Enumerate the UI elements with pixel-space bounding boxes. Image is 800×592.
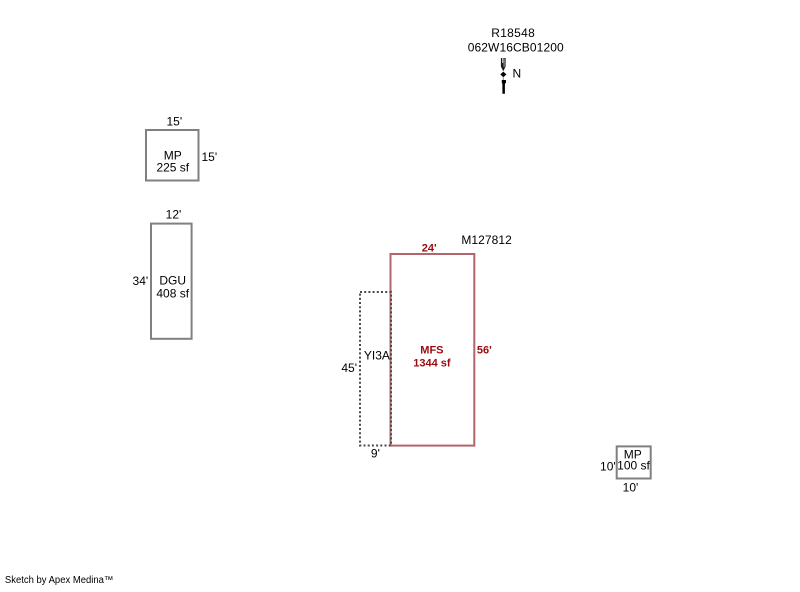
porch MP 225 sf	[146, 130, 199, 181]
svg-text:9': 9'	[371, 447, 380, 461]
svg-text:M127812: M127812	[461, 233, 512, 247]
svg-text:YI3A: YI3A	[364, 348, 390, 362]
svg-text:R18548: R18548	[491, 26, 535, 40]
svg-text:062W16CB01200: 062W16CB01200	[468, 41, 564, 55]
area YI3A dashed	[360, 292, 391, 446]
svg-text:1344 sf: 1344 sf	[413, 357, 451, 369]
svg-text:10': 10'	[600, 460, 616, 474]
svg-text:12': 12'	[166, 208, 182, 222]
svg-text:225 sf: 225 sf	[156, 161, 189, 175]
main floor MFS 1344 sf	[391, 254, 475, 446]
porch MP 100 sf	[617, 446, 651, 478]
svg-text:56': 56'	[477, 345, 492, 357]
svg-text:Sketch by Apex Medina™: Sketch by Apex Medina™	[5, 575, 114, 586]
north arrow	[500, 58, 506, 94]
svg-text:45': 45'	[341, 361, 357, 375]
svg-text:34': 34'	[133, 274, 149, 288]
svg-text:408 sf: 408 sf	[156, 287, 189, 301]
garage DGU 408 sf	[151, 224, 192, 339]
svg-text:24': 24'	[422, 243, 437, 255]
svg-text:N: N	[513, 67, 522, 81]
svg-text:15': 15'	[166, 115, 182, 129]
svg-text:15': 15'	[202, 150, 218, 164]
svg-text:10': 10'	[623, 481, 639, 495]
svg-text:MFS: MFS	[420, 345, 443, 357]
svg-text:100 sf: 100 sf	[617, 459, 650, 473]
svg-text:DGU: DGU	[159, 274, 186, 288]
